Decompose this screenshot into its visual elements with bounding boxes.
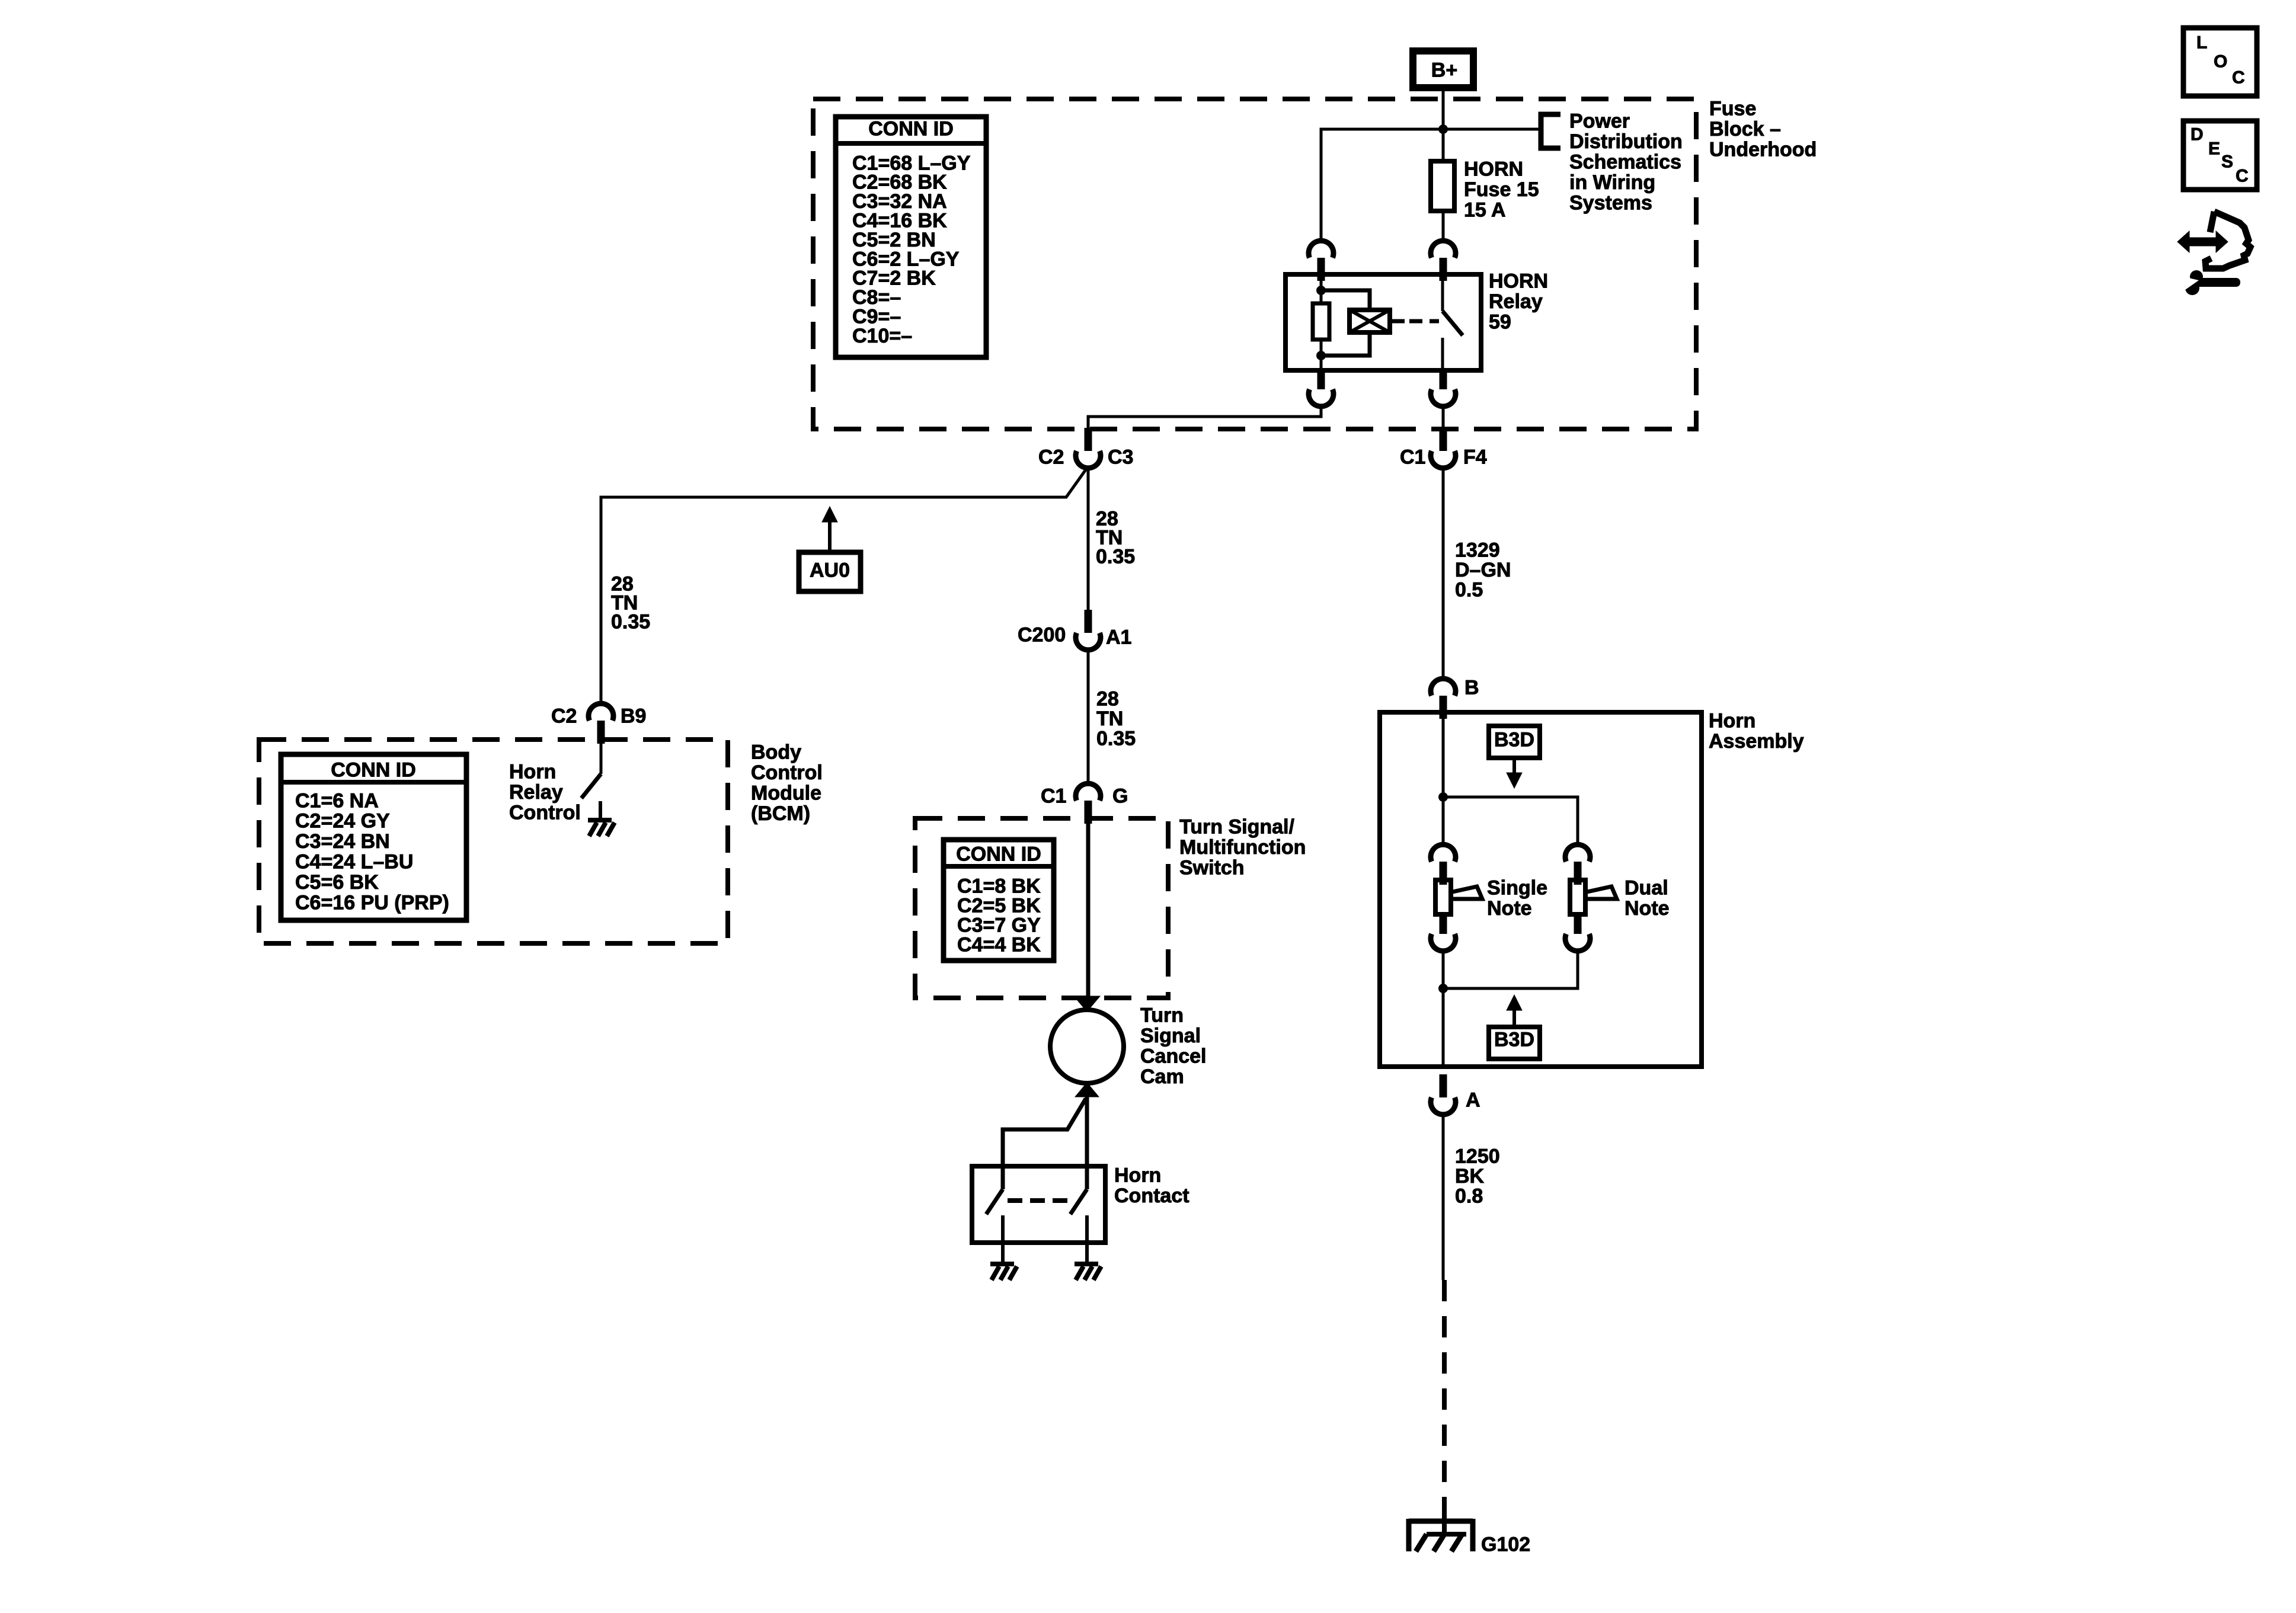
relay switch contact (upper) (1441, 274, 1444, 311)
wire relay switch output to C1/F4 (1442, 406, 1445, 428)
node: B+ distribution junction (1438, 124, 1448, 134)
svg-text:Schematics: Schematics (1569, 151, 1681, 173)
connector: relay switch feed pin (top right) (1431, 241, 1456, 281)
connector C2/B9 (BCM) (589, 703, 613, 744)
wire cam to horn contact right (1085, 1096, 1089, 1189)
relay switch blade (1443, 311, 1463, 335)
svg-text:B: B (1464, 676, 1479, 699)
wire junction to power distribution reference (right) (1443, 128, 1540, 131)
connector: relay coil feed pin (top left) (1309, 241, 1334, 281)
svg-text:G: G (1112, 785, 1128, 807)
wire single note to bottom junction (1442, 950, 1445, 1067)
svg-text:Single: Single (1487, 876, 1547, 899)
label: circuit 1250 BK 0.8 (1455, 1145, 1500, 1207)
splice reference B3D (bottom) (1489, 995, 1540, 1059)
relay coil (solenoid box with X) (1350, 310, 1390, 332)
svg-text:TN: TN (1096, 708, 1123, 730)
svg-text:Dual: Dual (1625, 876, 1668, 899)
svg-text:C1: C1 (1400, 446, 1425, 468)
svg-text:Turn Signal/: Turn Signal/ (1179, 815, 1294, 838)
svg-text:0.35: 0.35 (1096, 545, 1135, 568)
service/repair icon (arrow, part outline, wrench) (2176, 212, 2250, 295)
svg-text:Fuse 15: Fuse 15 (1464, 178, 1539, 201)
svg-text:Power: Power (1569, 110, 1630, 132)
label: circuit 28 TN 0.35 (upper middle) (1096, 507, 1135, 568)
turn signal cancel cam (circle) (1050, 1010, 1124, 1083)
label: Fuse Block - Underhood (1709, 97, 1817, 161)
connector dual note horn (top) (1565, 844, 1590, 885)
label: Body Control Module (BCM) (751, 741, 823, 825)
svg-text:Fuse: Fuse (1709, 97, 1756, 120)
svg-text:C200: C200 (1018, 623, 1066, 646)
svg-text:C5=6 BK: C5=6 BK (295, 871, 379, 894)
connector C1/G (turn signal switch) (1076, 783, 1101, 824)
wire to G102 (unreferenced, dashed) (1442, 1280, 1447, 1519)
connector: relay coil control pin (bottom left) (1309, 370, 1334, 407)
svg-text:CONN ID: CONN ID (868, 117, 954, 140)
wire C1/G through switch to cancel cam (1086, 824, 1091, 1001)
CONN ID table (fuse block underhood) (836, 117, 986, 357)
label: circuit 28 TN 0.35 (lower middle) (1096, 687, 1136, 750)
svg-text:Horn: Horn (509, 760, 556, 783)
svg-text:C1=6 NA: C1=6 NA (295, 789, 379, 812)
label: Horn Relay Control (509, 760, 581, 824)
connector A (horn assembly ground lead) (1431, 1074, 1456, 1115)
ground (BCM internal) (588, 820, 615, 836)
svg-text:in Wiring: in Wiring (1569, 171, 1655, 194)
horn contact right lower contact to ground (1085, 1215, 1089, 1264)
svg-text:Module: Module (751, 782, 821, 804)
wire C1/F4 down to horn assembly (1442, 466, 1445, 679)
svg-text:Underhood: Underhood (1709, 138, 1817, 161)
svg-text:Distribution: Distribution (1569, 130, 1683, 153)
label: Horn Assembly (1709, 709, 1804, 753)
svg-text:C: C (2236, 167, 2249, 186)
option reference AU0 (799, 507, 861, 591)
svg-text:(BCM): (BCM) (751, 802, 810, 825)
wire junction to relay coil feed (left) (1321, 129, 1443, 241)
svg-text:59: 59 (1489, 311, 1511, 333)
svg-text:B+: B+ (1431, 59, 1457, 81)
svg-text:Horn: Horn (1114, 1164, 1161, 1186)
LOC legend box (2183, 28, 2257, 96)
relay internal wire resistor bottom (1320, 340, 1323, 370)
svg-text:B3D: B3D (1494, 728, 1534, 751)
svg-text:C6=16 PU (PRP): C6=16 PU (PRP) (295, 891, 449, 914)
relay: HORN Relay 59 box (1285, 274, 1481, 370)
svg-text:15 A: 15 A (1464, 199, 1506, 221)
connector C200/A1 (1076, 610, 1101, 650)
svg-text:F4: F4 (1463, 446, 1487, 468)
svg-text:Relay: Relay (509, 781, 563, 804)
svg-text:Control: Control (509, 801, 581, 824)
wire C2/C3 to BCM (horn relay control net) (601, 466, 1088, 704)
svg-text:C: C (2232, 68, 2245, 88)
BCM horn relay control switch (driver) (600, 741, 603, 774)
relay internal resistor (1313, 303, 1329, 340)
wire B+ down to fuse (1442, 88, 1445, 161)
wire relay coil control to C2/C3 (1088, 406, 1321, 428)
svg-text:C2: C2 (551, 705, 577, 727)
svg-text:AU0: AU0 (810, 559, 850, 581)
svg-text:S: S (2221, 152, 2233, 172)
dual note horn element (1570, 880, 1617, 914)
horn contact box (972, 1166, 1105, 1243)
horn contact left lower contact to ground (1001, 1215, 1005, 1264)
horn contact right switch blade (1070, 1189, 1087, 1214)
relay coil to switch actuator (dashed) (1390, 319, 1405, 324)
svg-text:Cam: Cam (1140, 1065, 1184, 1088)
svg-text:C4=4 BK: C4=4 BK (957, 933, 1041, 956)
svg-text:Control: Control (751, 761, 823, 784)
connector C1/F4 (1431, 428, 1456, 468)
wire C200 to C1/G (1087, 649, 1090, 784)
relay coil branch wires (1321, 290, 1370, 310)
svg-text:C2: C2 (1038, 446, 1064, 468)
svg-text:Switch: Switch (1179, 856, 1245, 879)
label: circuit 1329 D-GN 0.5 (1455, 539, 1511, 601)
svg-text:28: 28 (1096, 687, 1119, 710)
ground (horn contact left) (990, 1264, 1017, 1280)
ground G102 (1409, 1519, 1473, 1551)
label: Power Distribution Schematics in Wiring Systems (1569, 110, 1683, 214)
connector single note horn (top) (1431, 844, 1456, 885)
connector: relay switch output pin (bottom right) (1431, 370, 1456, 407)
splice reference B3D (top) (1489, 726, 1540, 788)
power distribution reference bracket (1541, 114, 1560, 148)
svg-text:Signal: Signal (1140, 1025, 1201, 1047)
node: horn ground junction (bottom) (1438, 984, 1448, 993)
CONN ID table (turn signal switch) (944, 840, 1054, 961)
label: Dual Note (1625, 876, 1670, 920)
BCM internal ground stub (599, 801, 602, 820)
svg-text:Turn: Turn (1140, 1004, 1184, 1026)
DESC legend box (2183, 121, 2257, 190)
svg-text:HORN: HORN (1464, 158, 1523, 180)
svg-text:Systems: Systems (1569, 191, 1652, 214)
svg-text:C2=24 GY: C2=24 GY (295, 810, 390, 833)
svg-text:HORN: HORN (1489, 270, 1548, 292)
wire C2/C3 down to C200 (1087, 466, 1090, 610)
svg-text:Assembly: Assembly (1709, 730, 1804, 753)
svg-text:0.35: 0.35 (611, 610, 650, 633)
svg-text:CONN ID: CONN ID (956, 843, 1041, 865)
wire dual note to bottom junction (1443, 950, 1578, 988)
arrowhead onto cancel cam (1074, 996, 1100, 1012)
svg-text:0.8: 0.8 (1455, 1185, 1483, 1207)
svg-text:0.5: 0.5 (1455, 578, 1483, 601)
svg-text:E: E (2208, 139, 2220, 159)
svg-text:B3D: B3D (1494, 1028, 1534, 1051)
label: Single Note (1487, 876, 1547, 920)
svg-text:Horn: Horn (1709, 709, 1755, 732)
svg-text:Contact: Contact (1114, 1185, 1189, 1207)
label: circuit 28 TN 0.35 (left branch) (611, 572, 650, 633)
node: relay coil top junction (1316, 286, 1326, 295)
svg-text:Body: Body (751, 741, 801, 763)
svg-text:A1: A1 (1106, 626, 1131, 648)
label: Turn Signal/Multifunction Switch (1179, 815, 1306, 879)
power feed B+ box (1413, 51, 1473, 88)
svg-text:1250: 1250 (1455, 1145, 1500, 1167)
fuse: HORN Fuse 15 (15 A) (1431, 158, 1539, 221)
connector dual note horn (bottom) (1565, 914, 1590, 951)
svg-text:C1: C1 (1041, 785, 1066, 807)
svg-text:C10=–: C10=– (852, 325, 912, 347)
label: G102 (1481, 1533, 1530, 1556)
svg-text:Note: Note (1487, 897, 1532, 920)
wire B into assembly to top junction (1442, 712, 1445, 845)
svg-text:1329: 1329 (1455, 539, 1500, 561)
svg-text:Cancel: Cancel (1140, 1045, 1207, 1067)
connector single note horn (bottom) (1431, 914, 1456, 951)
relay switch contact (lower) (1441, 338, 1444, 370)
svg-text:G102: G102 (1481, 1533, 1530, 1556)
label: Turn Signal Cancel Cam (1140, 1004, 1207, 1088)
wire A down (solid) (1442, 1113, 1445, 1280)
single note horn element (1435, 880, 1482, 914)
svg-text:BK: BK (1455, 1165, 1485, 1188)
turn signal/multifunction switch dashed enclosure (915, 818, 1168, 998)
ground (horn contact right) (1075, 1264, 1101, 1280)
node: horn feed junction (top) (1438, 792, 1448, 802)
svg-text:C3=24 BN: C3=24 BN (295, 830, 390, 853)
horn assembly box (1380, 712, 1702, 1067)
cam follower arrowhead (bottom) (1075, 1083, 1099, 1097)
fuse block underhood dashed enclosure (813, 99, 1696, 429)
svg-text:0.35: 0.35 (1096, 727, 1136, 750)
label: Horn Contact (1114, 1164, 1189, 1207)
svg-text:B9: B9 (621, 705, 646, 727)
svg-text:O: O (2214, 52, 2227, 72)
wire fuse to relay switch pin (1442, 211, 1445, 241)
svg-text:L: L (2196, 33, 2207, 53)
svg-text:D: D (2191, 125, 2204, 145)
label: HORN Relay 59 (1489, 270, 1548, 333)
CONN ID table (BCM) (281, 754, 466, 920)
svg-text:A: A (1466, 1089, 1480, 1111)
svg-text:Note: Note (1625, 897, 1670, 920)
svg-text:Multifunction: Multifunction (1179, 836, 1306, 859)
wire top junction to dual note branch (1443, 797, 1578, 845)
BCM dashed enclosure (259, 740, 728, 943)
svg-text:Relay: Relay (1489, 290, 1543, 313)
node: relay coil bottom junction (1316, 351, 1326, 360)
svg-text:Block –: Block – (1709, 118, 1781, 140)
svg-text:C3: C3 (1108, 446, 1133, 468)
connector B (horn assembly) (1431, 679, 1456, 719)
horn contact left switch blade (986, 1189, 1003, 1214)
connector C2/C3 (fuse block to harness) (1076, 428, 1101, 468)
relay internal wire coil-side (1320, 274, 1323, 303)
mechanical link (dashed) (1008, 1198, 1072, 1203)
wire cam to horn contact left (dogleg) (1003, 1099, 1086, 1189)
svg-text:CONN ID: CONN ID (331, 759, 416, 781)
svg-text:C4=24 L–BU: C4=24 L–BU (295, 851, 413, 873)
svg-text:D–GN: D–GN (1455, 559, 1511, 581)
